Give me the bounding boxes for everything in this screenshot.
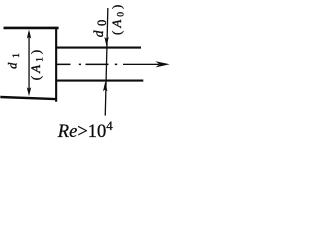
svg-text:Re>104: Re>104 xyxy=(57,118,113,142)
leader line d0/Re vertical xyxy=(105,8,109,116)
dimension arrowhead d1 up xyxy=(27,30,31,39)
upstream pipe end wall xyxy=(55,27,57,102)
centerline dot 2 xyxy=(115,64,117,66)
svg-text:(A1): (A1) xyxy=(28,47,46,80)
dimension arrowhead d1 down xyxy=(27,87,31,96)
dimension arrowhead Re up xyxy=(103,82,107,91)
svg-text:(A0): (A0) xyxy=(109,2,127,35)
centerline dot 1 xyxy=(79,64,81,66)
centerline dash 1 xyxy=(57,64,71,66)
upstream pipe bottom wall xyxy=(0,96,55,101)
svg-text:d1: d1 xyxy=(6,53,23,69)
centerline flow arrow shaft xyxy=(123,64,159,65)
centerline dash 2 xyxy=(86,64,109,66)
svg-text:d0: d0 xyxy=(91,20,109,38)
centerline flow arrowhead xyxy=(156,61,170,67)
upstream pipe top wall xyxy=(4,27,59,30)
dimension arrowhead d0 down xyxy=(104,37,108,46)
throat pipe top wall xyxy=(56,47,141,49)
throat pipe bottom wall xyxy=(56,80,143,82)
dimension arrow d1 shaft xyxy=(28,32,29,92)
